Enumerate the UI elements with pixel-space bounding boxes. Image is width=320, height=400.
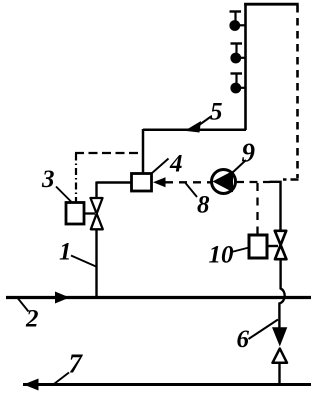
flow arrow on main 7 xyxy=(24,379,39,391)
svg-text:2: 2 xyxy=(25,306,39,333)
svg-text:3: 3 xyxy=(41,166,55,193)
radiator 1 circle xyxy=(229,20,240,31)
bypass pipe with hop over main 2 xyxy=(279,259,284,328)
svg-text:7: 7 xyxy=(69,349,84,379)
drop pipe to valve 4 xyxy=(142,129,145,174)
regulator 10 stub xyxy=(267,245,278,247)
sensor capillary vertical (dash-dot) xyxy=(75,154,77,203)
svg-text:9: 9 xyxy=(242,138,256,168)
return riser (dashed right side) xyxy=(296,5,299,178)
radiator 1 stem xyxy=(234,12,236,22)
radiator 3 cap xyxy=(231,72,243,74)
pipe 1 corner down xyxy=(95,182,97,199)
svg-text:1: 1 xyxy=(59,239,72,266)
pipe 1 vertical xyxy=(95,229,97,297)
radiator 1 cap xyxy=(230,10,242,12)
svg-text:6: 6 xyxy=(237,326,250,353)
control valve U4 body xyxy=(132,174,152,192)
dashed corner to junction xyxy=(283,178,299,181)
supply main 2 xyxy=(6,296,311,299)
check valve 6 open triangle xyxy=(273,349,288,363)
radiator 2 stem xyxy=(235,44,237,54)
riser top pipe xyxy=(244,3,299,6)
thermostatic valve at sensor 3 xyxy=(91,198,103,229)
label 3 leader xyxy=(56,187,72,203)
supply line 5 xyxy=(143,129,246,132)
label 8 leader xyxy=(186,183,198,197)
radiator 3 stub xyxy=(240,87,246,89)
flow arrow on line 5 xyxy=(185,121,202,133)
radiator 1 stub xyxy=(239,24,246,26)
riser pipe (solid left side) xyxy=(244,3,247,130)
return main 7 xyxy=(23,383,311,386)
pump 9 impeller triangle xyxy=(213,171,234,192)
label 1 leader xyxy=(71,256,96,267)
label 9 leader xyxy=(232,160,247,174)
regulator 10 body xyxy=(249,235,267,258)
pump 9 circle xyxy=(212,170,236,194)
svg-text:4: 4 xyxy=(169,151,183,178)
sensor 3 stub xyxy=(84,212,95,214)
label 4 leader xyxy=(152,159,169,174)
check valve 6 filled triangle xyxy=(272,327,287,346)
radiator 3 stem xyxy=(235,74,237,84)
junction corner to bypass pipe xyxy=(270,182,281,231)
dashed drop to regulator 10 xyxy=(256,183,258,234)
radiator 3 circle xyxy=(230,83,241,94)
radiator 2 cap xyxy=(231,42,243,44)
sensor 3 body xyxy=(66,203,84,225)
radiator 2 circle xyxy=(230,53,241,64)
radiator 2 stub xyxy=(240,57,246,59)
control line 8 (dashed, arrow into valve 4) xyxy=(153,177,166,187)
svg-text:10: 10 xyxy=(209,242,235,269)
valve at regulator 10 xyxy=(275,231,287,259)
label 2 leader xyxy=(18,299,29,312)
label 10 leader xyxy=(232,248,250,253)
svg-text:8: 8 xyxy=(197,192,210,219)
sensor capillary horizontal (dashed) xyxy=(75,152,142,154)
label 7 leader xyxy=(52,373,69,386)
label 5 leader xyxy=(197,117,211,127)
flow arrow on main 2 xyxy=(55,292,70,304)
control line 8 left dashes xyxy=(165,181,211,183)
svg-text:5: 5 xyxy=(210,99,223,126)
pipe from valve 4 to corner xyxy=(97,181,132,183)
control line 8 right dashes xyxy=(236,181,270,183)
pipe from check valve to main 7 xyxy=(278,363,280,385)
label 6 leader xyxy=(249,320,279,340)
